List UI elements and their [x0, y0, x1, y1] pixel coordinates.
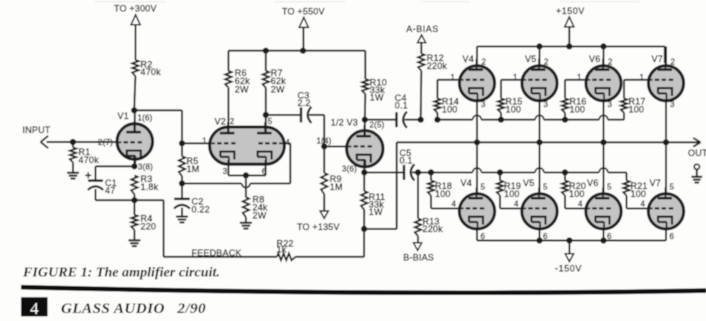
- svg-text:1: 1: [577, 73, 582, 82]
- svg-text:2: 2: [544, 57, 549, 66]
- svg-text:V6: V6: [587, 178, 598, 188]
- svg-text:3: 3: [481, 100, 486, 109]
- svg-text:100: 100: [570, 105, 586, 115]
- svg-text:TO +135V: TO +135V: [297, 222, 340, 232]
- svg-text:1W: 1W: [370, 92, 384, 102]
- svg-text:-150V: -150V: [555, 264, 582, 274]
- svg-text:FIGURE 1: The amplifier circui: FIGURE 1: The amplifier circuit.: [22, 264, 220, 280]
- svg-text:1.8k: 1.8k: [141, 182, 159, 192]
- svg-text:1: 1: [451, 73, 456, 82]
- svg-text:1M: 1M: [330, 182, 343, 192]
- svg-text:2: 2: [230, 117, 235, 126]
- svg-text:V2: V2: [215, 116, 226, 126]
- svg-text:1M: 1M: [187, 164, 200, 174]
- svg-text:6: 6: [543, 232, 548, 241]
- svg-text:0.22: 0.22: [192, 204, 210, 214]
- svg-text:2.2: 2.2: [298, 98, 311, 108]
- svg-text:V5: V5: [523, 178, 534, 188]
- svg-text:2W: 2W: [253, 211, 267, 221]
- svg-text:220k: 220k: [427, 61, 448, 71]
- svg-text:FEEDBACK: FEEDBACK: [192, 248, 242, 258]
- svg-text:6: 6: [670, 232, 675, 241]
- svg-text:GLASS AUDIO 2/90: GLASS AUDIO 2/90: [61, 300, 206, 317]
- svg-text:1: 1: [513, 73, 518, 82]
- svg-text:V7: V7: [652, 54, 663, 64]
- svg-text:100: 100: [506, 105, 522, 115]
- svg-text:5: 5: [481, 183, 486, 192]
- svg-text:V7: V7: [650, 178, 661, 188]
- svg-text:220: 220: [141, 221, 157, 231]
- svg-text:5: 5: [268, 117, 273, 126]
- svg-text:B-BIAS: B-BIAS: [403, 253, 434, 263]
- svg-text:3(6): 3(6): [342, 164, 357, 173]
- svg-text:6: 6: [481, 232, 486, 241]
- svg-text:1: 1: [202, 137, 207, 146]
- svg-text:OUT: OUT: [688, 148, 706, 158]
- svg-text:+150V: +150V: [556, 6, 585, 16]
- svg-text:3(8): 3(8): [138, 162, 153, 171]
- svg-text:4: 4: [514, 200, 519, 209]
- svg-text:1(6): 1(6): [138, 114, 153, 123]
- svg-text:V1: V1: [118, 111, 129, 121]
- svg-text:1k: 1k: [277, 245, 287, 255]
- svg-text:INPUT: INPUT: [23, 125, 51, 135]
- svg-text:TO +300V: TO +300V: [114, 3, 157, 13]
- svg-text:4: 4: [641, 200, 646, 209]
- svg-text:0.1: 0.1: [395, 100, 408, 110]
- svg-text:2(7): 2(7): [98, 138, 113, 147]
- svg-text:2: 2: [671, 57, 676, 66]
- svg-text:220k: 220k: [423, 224, 444, 234]
- svg-text:V5: V5: [525, 54, 536, 64]
- svg-text:100: 100: [629, 105, 645, 115]
- svg-text:100: 100: [435, 189, 451, 199]
- svg-text:1W: 1W: [369, 207, 383, 217]
- svg-text:5: 5: [607, 183, 612, 192]
- svg-text:3: 3: [670, 100, 675, 109]
- svg-text:2W: 2W: [235, 85, 249, 95]
- svg-text:2: 2: [608, 57, 613, 66]
- svg-text:4: 4: [578, 200, 583, 209]
- svg-text:4: 4: [452, 200, 457, 209]
- svg-text:0.1: 0.1: [400, 155, 413, 165]
- svg-text:A-BIAS: A-BIAS: [406, 24, 439, 34]
- svg-text:1: 1: [640, 73, 645, 82]
- svg-text:1/2 V3: 1/2 V3: [331, 118, 358, 128]
- svg-text:100: 100: [442, 105, 458, 115]
- svg-text:2: 2: [482, 57, 487, 66]
- svg-text:1(4): 1(4): [317, 136, 332, 145]
- svg-text:3: 3: [544, 100, 549, 109]
- svg-text:470k: 470k: [141, 67, 162, 77]
- svg-text:2W: 2W: [271, 85, 285, 95]
- svg-text:47: 47: [105, 186, 115, 196]
- svg-text:2(5): 2(5): [370, 121, 385, 130]
- svg-text:470k: 470k: [79, 155, 100, 165]
- svg-text:5: 5: [543, 183, 548, 192]
- svg-text:3: 3: [223, 167, 228, 176]
- svg-text:V4: V4: [463, 54, 474, 64]
- svg-text:100: 100: [631, 189, 647, 199]
- svg-text:TO +550V: TO +550V: [282, 7, 325, 17]
- svg-text:100: 100: [504, 189, 520, 199]
- svg-text:3: 3: [608, 100, 613, 109]
- svg-text:100: 100: [569, 189, 585, 199]
- svg-text:V6: V6: [589, 54, 600, 64]
- svg-text:4: 4: [30, 299, 39, 318]
- svg-text:V4: V4: [461, 178, 472, 188]
- svg-text:5: 5: [670, 183, 675, 192]
- svg-text:6: 6: [607, 232, 612, 241]
